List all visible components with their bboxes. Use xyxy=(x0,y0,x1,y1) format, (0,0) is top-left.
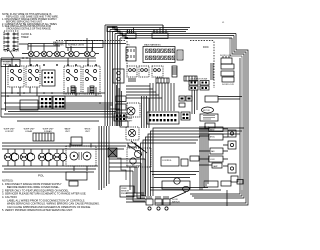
svg-text:P2: P2 xyxy=(153,31,155,33)
svg-text:DOOR LOCK: DOOR LOCK xyxy=(220,55,232,57)
svg-text:LIGHT: LIGHT xyxy=(126,121,133,123)
svg-text:L.FRONT: L.FRONT xyxy=(5,131,14,133)
svg-text:P5: P5 xyxy=(127,45,130,47)
svg-text:CONTROL: CONTROL xyxy=(162,160,173,162)
svg-text:MOTOR: MOTOR xyxy=(203,110,210,112)
svg-text:UNIT: UNIT xyxy=(85,131,90,133)
svg-text:P1: P1 xyxy=(126,31,128,33)
svg-text:SWITCH: SWITCH xyxy=(172,201,180,203)
svg-text:DOC: DOC xyxy=(203,45,209,49)
svg-text:GROUNDING DETAILS OF THIS RANG: GROUNDING DETAILS OF THIS RANGE. xyxy=(6,28,52,31)
svg-text:L1: L1 xyxy=(222,22,225,24)
svg-text:DOOR LOCK: DOOR LOCK xyxy=(222,84,235,86)
svg-text:MAIN HARNESS: MAIN HARNESS xyxy=(144,44,161,47)
svg-text:R.REAR: R.REAR xyxy=(44,130,52,133)
svg-text:FAN: FAN xyxy=(211,150,215,153)
svg-text:POL: POL xyxy=(38,174,44,178)
svg-text:UNIT: UNIT xyxy=(65,131,70,133)
svg-text:LOCK: LOCK xyxy=(210,159,215,161)
svg-text:SURFACE UNITS: SURFACE UNITS xyxy=(68,43,85,46)
svg-text:TIMER: TIMER xyxy=(21,36,29,39)
svg-text:LAMP: LAMP xyxy=(213,165,218,168)
svg-text:L.REAR: L.REAR xyxy=(25,130,33,133)
svg-text:PROBE: PROBE xyxy=(121,193,128,195)
svg-text:5. VERIFY PROPER OPERATION AFT: 5. VERIFY PROPER OPERATION AFTER SERVICI… xyxy=(2,208,73,212)
svg-text:COOLING FAN: COOLING FAN xyxy=(126,165,141,168)
svg-text:BROIL: BROIL xyxy=(210,137,215,139)
